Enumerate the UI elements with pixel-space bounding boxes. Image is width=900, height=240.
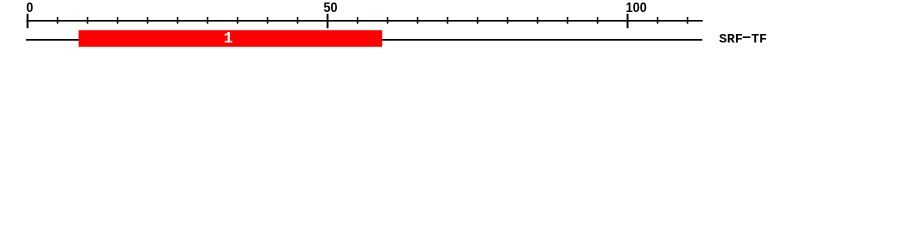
label SRF-TF dash [743, 36, 751, 38]
svg-text:0: 0 [26, 0, 33, 15]
ruler major tick 100 [627, 14, 629, 28]
svg-text:50: 50 [323, 0, 337, 15]
protein domain graphic [0, 0, 900, 58]
ruler minor ticks [57, 17, 689, 24]
ruler major tick 50 [327, 14, 329, 28]
domain box 1 (SRF-TF) [79, 30, 383, 47]
background [0, 0, 900, 58]
ruler major tick 0 [27, 14, 29, 28]
svg-text:TF: TF [751, 31, 767, 46]
svg-text:1: 1 [224, 29, 233, 47]
svg-text:100: 100 [626, 0, 647, 15]
svg-text:SRF: SRF [719, 31, 743, 46]
sequence line [26, 39, 702, 41]
ruler scale line [26, 20, 702, 22]
